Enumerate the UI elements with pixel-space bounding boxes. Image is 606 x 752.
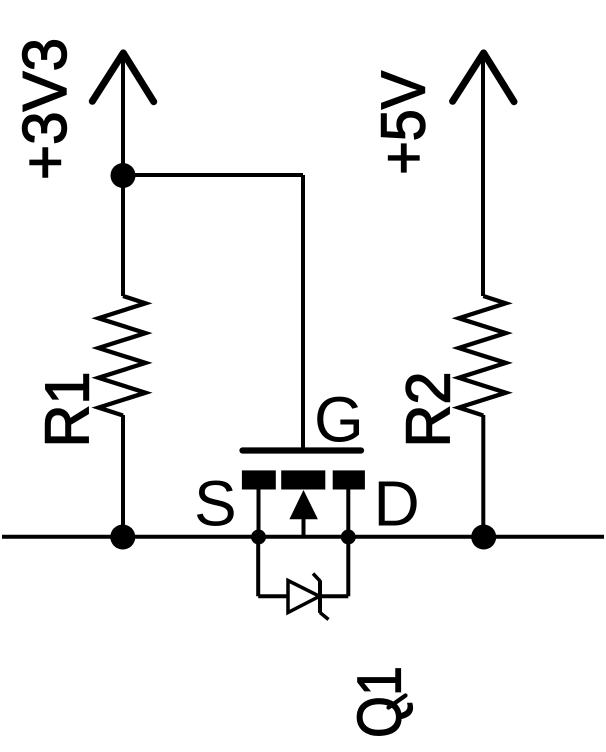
wire node to R1 [121,175,125,296]
resistor R1 [99,296,146,416]
wire drain drop [346,537,350,596]
Q1 drain lead [346,489,350,537]
svg-text:Q1: Q1 [346,666,415,738]
svg-text:R1: R1 [34,372,103,448]
resistor R2 [459,296,506,416]
wire gate vertical [301,175,305,449]
body diode cathode bar [318,580,322,613]
svg-text:D: D [374,468,420,540]
wire R2 to rail [481,415,485,537]
Q1 body arrow [289,490,318,519]
wire source drop [256,537,260,596]
transistor Q1 gate plate [243,447,362,453]
Q1 channel bar left [242,470,276,489]
body diode bottom tick [320,613,329,620]
power flag +3V3 arrow [92,53,153,102]
wire diode bottom [258,594,348,598]
Q1 channel bar middle [281,470,325,489]
junction node rail right [471,525,496,550]
junction node source [251,530,266,545]
label Q1 tail tick [389,696,406,708]
wire node to gate horizontal [123,173,303,177]
wire +3V3 vertical [121,55,125,176]
wire R1 to rail [121,415,125,537]
svg-text:R2: R2 [395,372,464,448]
bottom rail wire [2,535,604,539]
Q1 source lead [257,489,261,537]
junction node drain [341,530,356,545]
wire +5V vertical [481,55,485,296]
svg-text:+5V: +5V [370,70,439,175]
body diode top tick [313,574,320,582]
Q1 channel bar right [333,470,365,489]
svg-text:G: G [314,384,364,456]
Q1 body stem [302,519,306,537]
junction node rail left [110,525,135,550]
power flag +5V arrow [453,53,514,102]
body diode D1 triangle [288,581,320,613]
junction node 3V3 [111,163,136,188]
svg-text:S: S [194,468,237,540]
svg-text:+3V3: +3V3 [11,38,80,180]
